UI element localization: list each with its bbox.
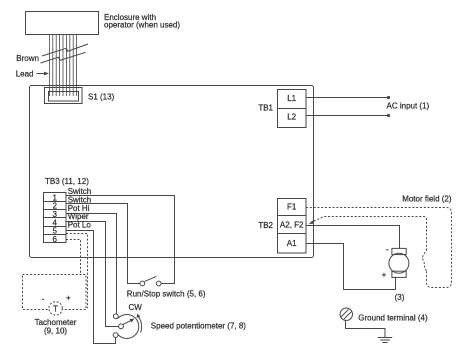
switch S1: [45, 88, 83, 104]
svg-text:Motor field (2): Motor field (2): [402, 194, 452, 203]
ground symbol: [378, 338, 392, 343]
dashed motor field return to A2,F2: [312, 217, 427, 251]
wire A2,F2 to motor armature top: [306, 226, 400, 249]
wire L2 to AC input: [306, 115, 389, 117]
lead arrow: [37, 73, 45, 75]
svg-text:A1: A1: [287, 239, 297, 248]
svg-text:TB3 (11, 12): TB3 (11, 12): [45, 177, 89, 186]
svg-text:A2, F2: A2, F2: [280, 221, 304, 230]
svg-text:Speed potentiometer (7, 8): Speed potentiometer (7, 8): [151, 321, 247, 330]
wire TB3-5 Pot Lo to potentiometer: [66, 231, 116, 344]
dashed motor field loop from F1: [306, 208, 452, 288]
wire bundle (9 leads): [50, 35, 77, 97]
svg-text:Ground terminal (4): Ground terminal (4): [358, 314, 428, 323]
main control box: [30, 86, 314, 258]
svg-text:(9, 10): (9, 10): [44, 327, 67, 336]
svg-text:F1: F1: [287, 203, 297, 212]
svg-text:Run/Stop switch (5, 6): Run/Stop switch (5, 6): [127, 290, 206, 299]
wire TB3-1 to run/stop switch: [66, 196, 175, 284]
motor M: [392, 248, 406, 254]
wire to ground: [346, 320, 386, 337]
wire TB3-3 Pot Hi to potentiometer: [66, 214, 117, 314]
potentiometer wiper arrow: [123, 321, 131, 325]
svg-text:AC input (1): AC input (1): [387, 102, 430, 111]
node AC L1: [387, 96, 390, 99]
enclosure box: [26, 12, 99, 35]
wire L1 to AC input: [306, 97, 389, 99]
wire TB3-2 to run/stop switch: [66, 204, 140, 284]
svg-text:-: -: [42, 295, 45, 304]
dashed wire TB3-5 to tachometer: [66, 234, 88, 309]
field winding squiggle: [422, 251, 426, 271]
tachometer T circle: [49, 302, 62, 315]
svg-text:6: 6: [52, 235, 57, 244]
terminal block TB2: [278, 199, 307, 254]
svg-text:S1 (13): S1 (13): [88, 93, 115, 102]
terminal block TB3: [44, 193, 67, 243]
TB3 pin numbers: [52, 193, 57, 243]
potentiometer terminals: [113, 314, 118, 319]
terminal block TB1: [278, 90, 307, 128]
svg-text:TB2: TB2: [258, 221, 273, 230]
dashed wire TB3-6 to tachometer: [66, 240, 81, 275]
svg-text:+: +: [382, 271, 387, 280]
svg-text:L1: L1: [287, 94, 296, 103]
svg-text:L2: L2: [287, 113, 296, 122]
svg-text:T: T: [53, 304, 58, 313]
svg-text:CW: CW: [129, 303, 143, 312]
node AC L2: [387, 114, 390, 117]
svg-text:TB1: TB1: [258, 104, 273, 113]
svg-text:Lead: Lead: [16, 70, 34, 79]
svg-text:Pot Lo: Pot Lo: [68, 221, 92, 230]
wire TB3-4 Wiper to potentiometer: [66, 222, 119, 327]
speed potentiometer body: [117, 314, 138, 338]
svg-text:Brown: Brown: [16, 54, 39, 63]
svg-text:(3): (3): [395, 293, 405, 302]
run/stop switch S: [140, 281, 145, 286]
CW rotation arc: [138, 316, 141, 332]
svg-text:-: -: [386, 245, 389, 254]
wire A1 to motor armature bottom: [306, 244, 396, 290]
tachometer dashed enclosure: [23, 275, 87, 310]
svg-text:+: +: [66, 294, 71, 303]
svg-text:operator (when used): operator (when used): [104, 21, 180, 30]
ground terminal screw: [340, 308, 352, 320]
cable break symbol (two bolts): [42, 44, 88, 56]
